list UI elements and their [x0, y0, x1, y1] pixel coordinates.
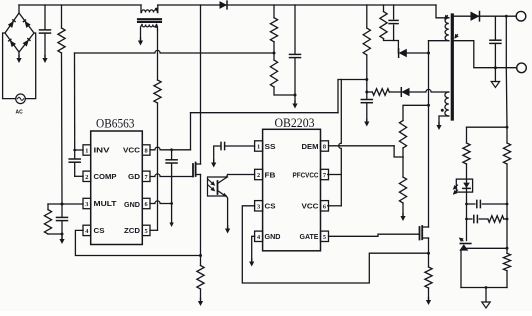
svg-text:FB: FB — [265, 172, 276, 179]
svg-text:2: 2 — [85, 174, 88, 181]
svg-text:GD: GD — [128, 174, 140, 181]
svg-text:8: 8 — [323, 144, 326, 151]
svg-text:INV: INV — [94, 148, 110, 155]
svg-text:OB6563: OB6563 — [96, 117, 135, 131]
svg-text:6: 6 — [323, 203, 326, 210]
svg-text:5: 5 — [145, 228, 148, 235]
svg-text:CS: CS — [265, 204, 276, 211]
svg-text:DEM: DEM — [302, 144, 319, 151]
svg-text:5: 5 — [323, 234, 326, 241]
svg-text:3: 3 — [85, 201, 88, 208]
svg-text:SS: SS — [265, 144, 276, 151]
svg-text:1: 1 — [257, 144, 260, 151]
svg-text:GND: GND — [124, 202, 140, 209]
svg-text:GND: GND — [265, 234, 281, 241]
svg-text:COMP: COMP — [94, 174, 117, 181]
svg-text:GATE: GATE — [300, 234, 319, 241]
svg-text:8: 8 — [145, 148, 148, 155]
svg-text:AC: AC — [16, 110, 24, 116]
svg-text:MULT: MULT — [94, 201, 118, 208]
svg-text:2: 2 — [257, 172, 260, 179]
svg-text:6: 6 — [145, 201, 148, 208]
svg-text:PFCVCC: PFCVCC — [293, 172, 319, 179]
svg-text:VCC: VCC — [302, 204, 319, 211]
svg-text:OB2203: OB2203 — [275, 116, 315, 130]
svg-text:7: 7 — [145, 174, 148, 181]
svg-text:ZCD: ZCD — [124, 228, 140, 235]
svg-text:VCC: VCC — [123, 148, 140, 155]
svg-text:CS: CS — [94, 228, 105, 235]
svg-text:3: 3 — [257, 203, 260, 210]
svg-text:1: 1 — [85, 148, 88, 155]
svg-text:7: 7 — [323, 172, 326, 179]
